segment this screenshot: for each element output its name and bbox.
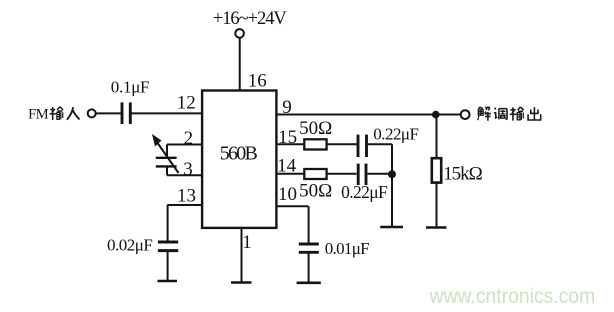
svg-text:0.1μF: 0.1μF (111, 77, 150, 96)
svg-text:16: 16 (248, 71, 267, 92)
svg-text:13: 13 (177, 186, 196, 207)
svg-text:+16~+24V: +16~+24V (213, 9, 288, 29)
svg-text:15kΩ: 15kΩ (443, 164, 483, 185)
svg-text:12: 12 (177, 93, 196, 114)
svg-text:10: 10 (278, 184, 297, 205)
svg-text:14: 14 (277, 155, 297, 176)
svg-text:0.01μF: 0.01μF (325, 239, 370, 258)
svg-text:50Ω: 50Ω (299, 181, 332, 202)
svg-text:560B: 560B (220, 142, 258, 164)
svg-text:50Ω: 50Ω (299, 118, 332, 139)
svg-text:0.22μF: 0.22μF (341, 182, 388, 202)
svg-text:1: 1 (242, 232, 252, 253)
svg-text:3: 3 (183, 159, 193, 180)
svg-text:0.02μF: 0.02μF (107, 236, 153, 255)
svg-text:2: 2 (184, 128, 194, 149)
svg-text:9: 9 (282, 97, 292, 118)
svg-text:15: 15 (278, 127, 297, 148)
svg-text:FM: FM (28, 107, 49, 123)
svg-text:0.22μF: 0.22μF (373, 125, 419, 144)
svg-text:www.cntronics.com: www.cntronics.com (429, 284, 596, 308)
